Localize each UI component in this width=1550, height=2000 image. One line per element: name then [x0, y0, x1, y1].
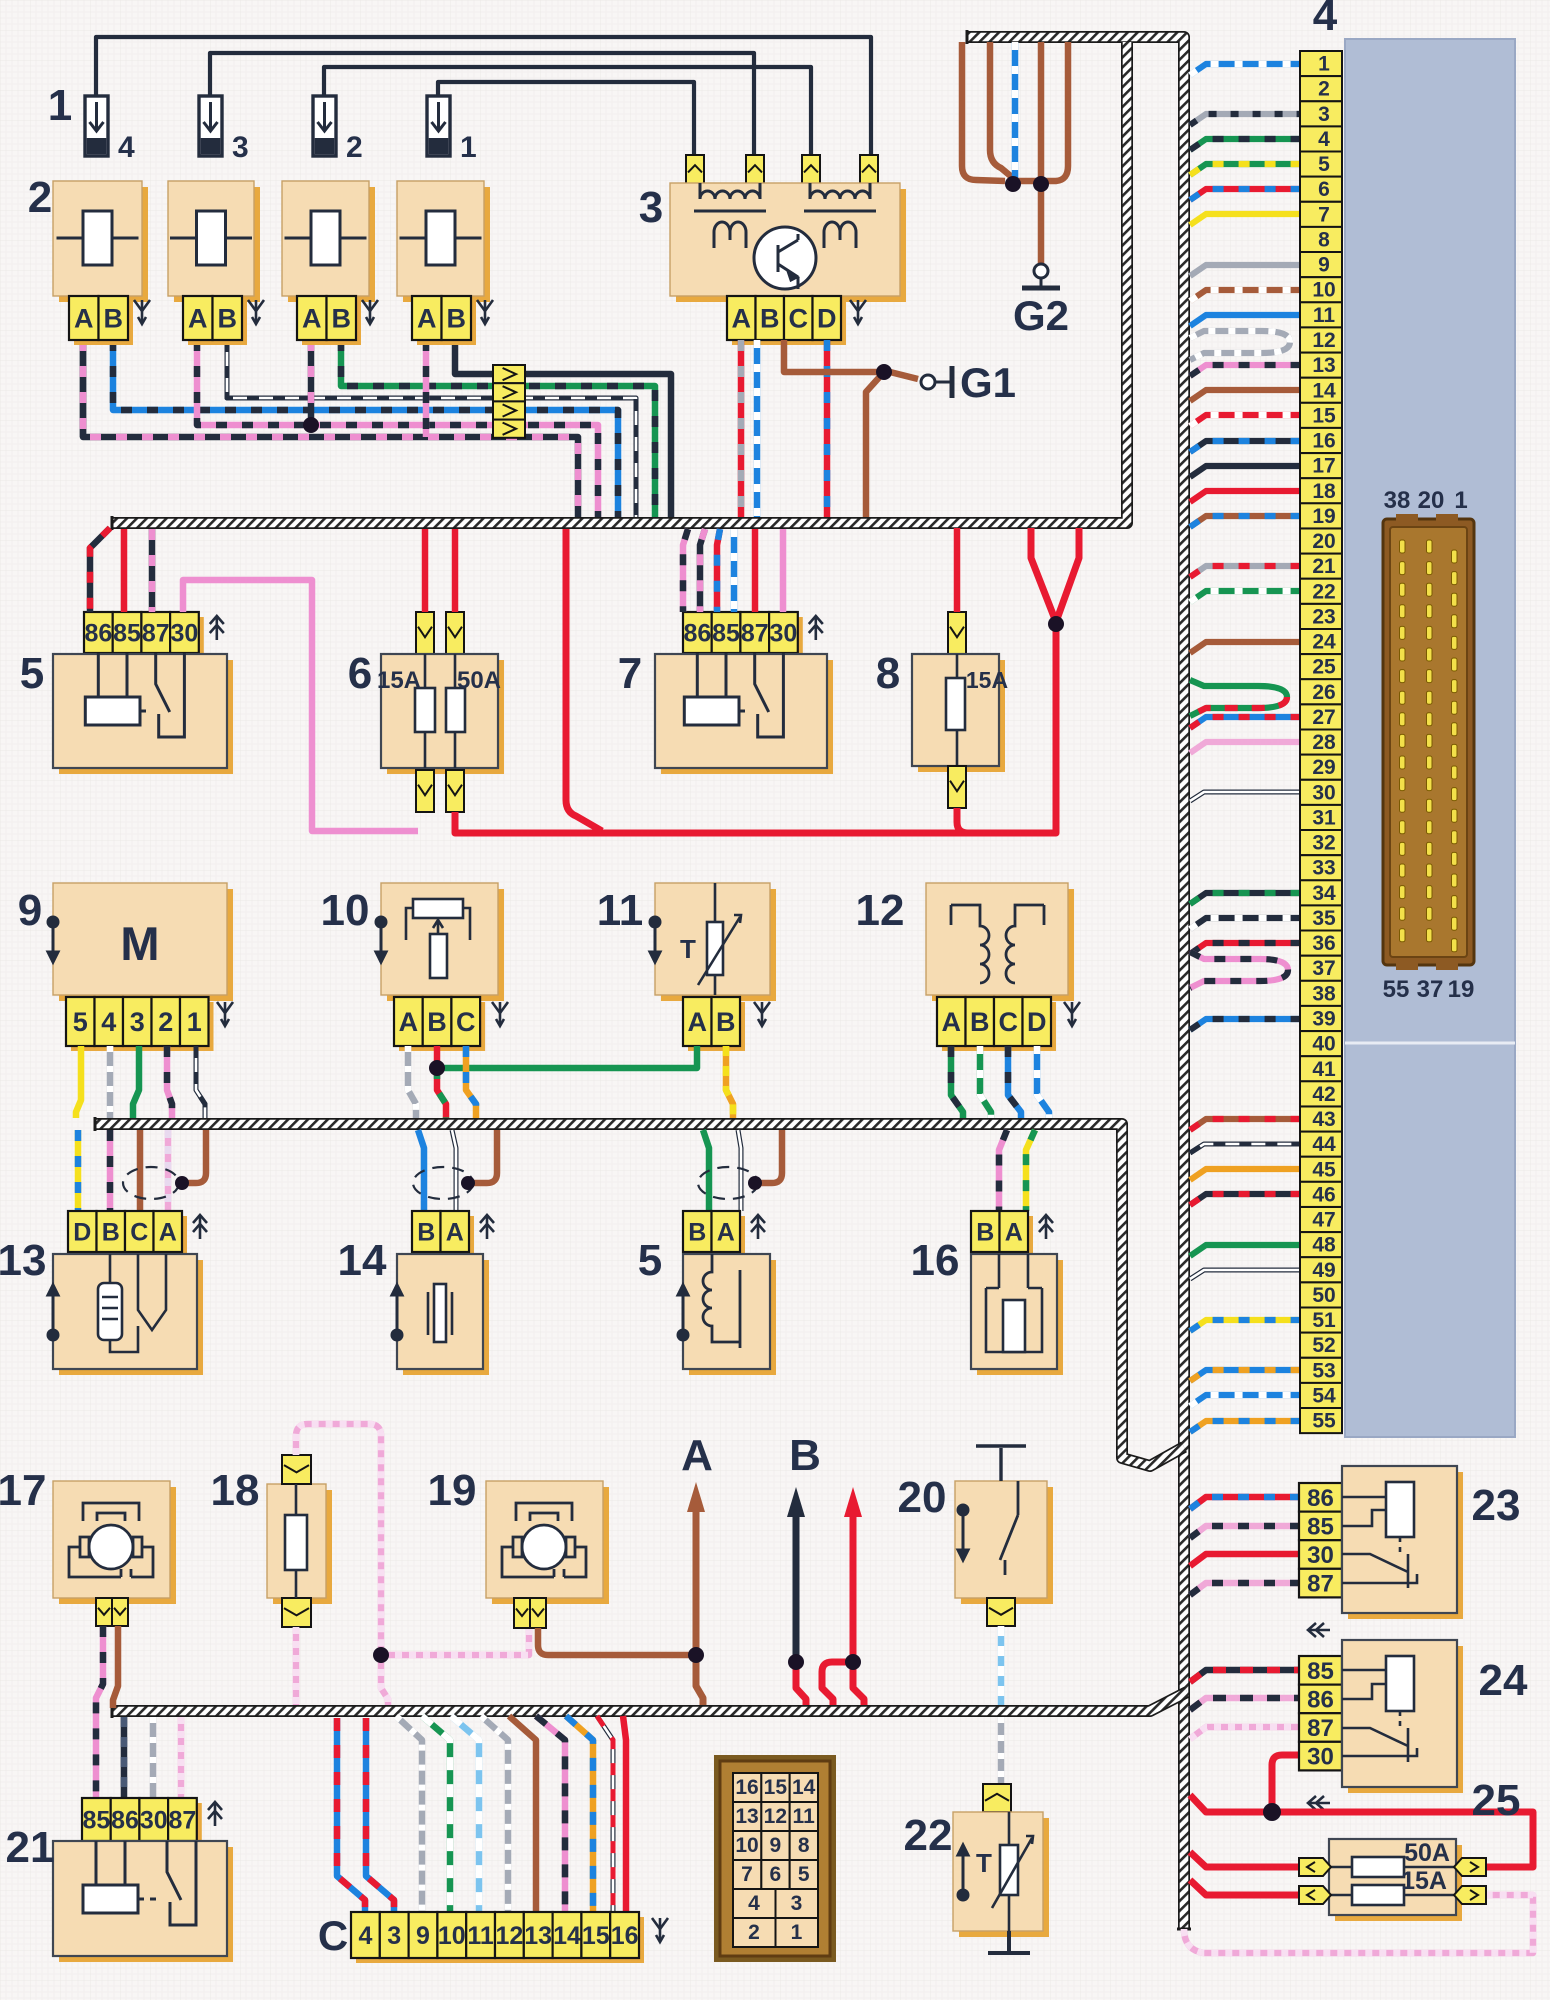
svg-text:A: A	[159, 1219, 177, 1247]
wire coil wire run y386	[341, 340, 655, 517]
wire ECU pin 54 wire	[1190, 1395, 1300, 1406]
svg-text:22: 22	[1312, 580, 1335, 603]
relay 21 connector	[82, 1798, 202, 1846]
wire ECU pin 51 wire	[1190, 1320, 1300, 1331]
item 14 arrows	[480, 1215, 494, 1239]
svg-text:21: 21	[1312, 555, 1336, 578]
svg-text:86: 86	[111, 1807, 139, 1835]
wire module 3 wire C brown to G1	[784, 340, 918, 379]
item 14 connector B A	[412, 1211, 474, 1257]
wire ECU pin 16 wire	[1190, 441, 1300, 452]
svg-text:A: A	[1005, 1219, 1023, 1247]
svg-text:12: 12	[856, 886, 905, 935]
svg-text:5: 5	[20, 649, 44, 698]
wire red branch loop	[822, 1662, 853, 1705]
svg-text:1: 1	[1318, 53, 1330, 76]
svg-text:85: 85	[712, 620, 740, 648]
wire relay 5 wire 85 (red)	[121, 529, 128, 612]
svg-text:A: A	[717, 1219, 735, 1247]
bus end caps	[95, 30, 1191, 1929]
item 16 connector B A	[971, 1211, 1033, 1257]
wire ignition feed wire injector 2	[324, 67, 811, 158]
svg-text:13: 13	[524, 1922, 552, 1950]
wire ECU pin 34 wire	[1190, 893, 1300, 904]
relay 21 internals	[83, 1841, 196, 1925]
svg-text:5: 5	[798, 1863, 810, 1886]
wire relay 21 wire 86 navy	[121, 1717, 128, 1798]
wire relay 5 wire 87 (navy/pink)	[149, 529, 156, 612]
wire ECU pin 5 wire	[1190, 164, 1300, 175]
svg-text:4: 4	[1318, 128, 1330, 151]
wire C-strip wire 15w	[597, 1716, 613, 1912]
svg-text:2: 2	[28, 173, 52, 222]
wire ECU pin 27 wire	[1190, 717, 1300, 728]
wire ECU pin 11 wire	[1190, 315, 1300, 326]
wire relay 7 wire c (red/blue)	[717, 529, 720, 612]
svg-text:48: 48	[1312, 1234, 1336, 1257]
svg-text:M: M	[120, 917, 159, 970]
air temp sensor (item 22)	[953, 1812, 1049, 1937]
svg-text:40: 40	[1312, 1033, 1335, 1056]
main relay (item 21)	[53, 1841, 233, 1962]
wire ECU pin 48 wire	[1190, 1245, 1300, 1256]
junction shield 13	[175, 1176, 189, 1190]
svg-text:22: 22	[904, 1811, 953, 1860]
svg-text:85: 85	[1307, 1658, 1334, 1685]
item 20 dot-arrow	[958, 1505, 968, 1560]
wire C-strip wire 11	[451, 1716, 479, 1912]
wire C-strip wire 9	[396, 1716, 422, 1912]
svg-text:D: D	[1027, 1007, 1047, 1037]
svg-text:31: 31	[1312, 807, 1336, 830]
svg-text:15: 15	[1312, 404, 1336, 427]
svg-text:50A: 50A	[1404, 1839, 1450, 1867]
ground symbol coil 4	[477, 300, 493, 324]
spark plug 1 (item 1)	[427, 96, 477, 164]
svg-text:37: 37	[1417, 976, 1444, 1003]
svg-text:86: 86	[1307, 1687, 1334, 1714]
wire ignition feed wire injector 4	[96, 37, 871, 158]
svg-text:11: 11	[467, 1922, 494, 1950]
wire G2 down brown	[1013, 181, 1041, 265]
relay 24 out arrow	[1308, 1796, 1330, 1810]
wire relay 24 wire 86	[1190, 1698, 1299, 1710]
wire main power red net	[455, 626, 1056, 833]
svg-text:B: B	[789, 1431, 821, 1480]
item 19 symbol	[502, 1503, 586, 1577]
item 19 connector	[514, 1598, 546, 1628]
idle actuator (item 19)	[486, 1481, 609, 1604]
wire pink link 19	[381, 1628, 529, 1655]
wire ECU pin 30 wire	[1190, 792, 1300, 801]
wire relay 7 wire d (blue/white)	[731, 529, 738, 612]
svg-text:A: A	[417, 304, 437, 334]
relay 23 pin 86	[1299, 1483, 1342, 1512]
wire red tail main	[853, 1662, 864, 1705]
wire item 12 pinA green/navy	[951, 1046, 963, 1118]
relay 7 internals	[684, 653, 783, 737]
wire ECU pin 12 hairpin gray	[1190, 331, 1290, 360]
fuse (item 8)	[912, 654, 1005, 772]
svg-text:23: 23	[1472, 1481, 1521, 1530]
wire ECU pin 26 wire green	[1190, 680, 1287, 716]
item 13 arrows	[193, 1215, 207, 1239]
wire harness bus 1 (engine top)	[113, 42, 1127, 523]
svg-text:17: 17	[0, 1466, 46, 1515]
engine harness connector C	[351, 1912, 644, 1963]
wire battery red feed	[1190, 1795, 1533, 1867]
svg-text:T: T	[976, 1848, 992, 1878]
svg-text:A: A	[732, 304, 752, 334]
svg-text:12: 12	[1312, 329, 1335, 352]
wire module 3 wire D (red/blue)	[824, 340, 831, 517]
wire pink net to bus3	[381, 1655, 388, 1705]
svg-text:54: 54	[1312, 1385, 1336, 1408]
wire ECU pin 7 wire	[1190, 214, 1300, 225]
item 20 T antenna	[976, 1446, 1026, 1481]
svg-text:29: 29	[1312, 756, 1335, 779]
wire coil 4 wire A drop	[423, 340, 430, 437]
svg-text:30: 30	[140, 1807, 168, 1835]
svg-text:16: 16	[611, 1922, 639, 1950]
wire arrow red	[850, 1515, 857, 1662]
item 18 connector top	[282, 1455, 311, 1484]
svg-text:C: C	[130, 1219, 148, 1247]
relay (item 7)	[655, 654, 833, 774]
svg-text:87: 87	[1307, 1571, 1334, 1598]
svg-text:C: C	[456, 1007, 476, 1037]
svg-text:4: 4	[748, 1892, 760, 1915]
wire ECU pin 15 wire	[1190, 415, 1300, 426]
svg-text:10: 10	[438, 1922, 466, 1950]
wire item 9 pin4 gray	[107, 1046, 114, 1118]
item 20 connector	[987, 1598, 1015, 1626]
wire ECU pin 4 wire	[1190, 139, 1300, 150]
svg-text:B: B	[102, 1219, 120, 1247]
svg-text:2: 2	[1318, 78, 1330, 101]
svg-text:11: 11	[597, 886, 644, 935]
wire B red tail	[796, 1662, 806, 1705]
wire item 12 pinD blue/white	[1037, 1046, 1049, 1118]
svg-text:T: T	[680, 934, 696, 964]
svg-text:15: 15	[582, 1922, 610, 1950]
svg-text:B: B	[716, 1007, 736, 1037]
wire ECU pin 45 wire	[1190, 1169, 1300, 1180]
svg-text:B: B	[447, 304, 467, 334]
throttle position sensor (item 10)	[381, 883, 504, 1001]
svg-text:8: 8	[1318, 229, 1330, 252]
spark plug 2 (item 1)	[313, 96, 363, 164]
relay 23 pin 30	[1299, 1540, 1342, 1569]
wire relay 24 wire 85	[1190, 1670, 1299, 1682]
relay 24 pin 30	[1299, 1742, 1342, 1771]
wire relay 21 wire 30 gray	[150, 1717, 157, 1798]
wire C-strip wire 3	[366, 1718, 394, 1912]
fuse block (item 6)	[381, 654, 504, 774]
coil 2 symbol	[170, 211, 252, 265]
svg-text:7: 7	[1318, 203, 1330, 226]
relay 23 out arrow	[1308, 1623, 1330, 1637]
svg-text:39: 39	[1312, 1008, 1335, 1031]
wire ECU pin 3 wire	[1190, 114, 1300, 125]
svg-text:42: 42	[1312, 1083, 1335, 1106]
wire harness bus top (to ECU)	[968, 37, 1184, 1929]
relay 23 pin 85	[1299, 1512, 1342, 1541]
wire ECU pin 14 wire	[1190, 390, 1300, 401]
junction A	[688, 1647, 704, 1663]
ECU harness connector (brown)	[1383, 514, 1474, 970]
junction G2 a	[1005, 176, 1021, 192]
fuse block (item 25)	[1329, 1839, 1462, 1921]
svg-text:87: 87	[169, 1807, 197, 1835]
wire ECU pin 46 wire	[1190, 1194, 1300, 1205]
svg-text:85: 85	[113, 620, 141, 648]
svg-text:15A: 15A	[1401, 1867, 1447, 1895]
ignition module (item 3)	[670, 183, 906, 302]
shield ellipse item 14	[413, 1167, 473, 1199]
svg-text:B: B	[218, 304, 238, 334]
svg-text:44: 44	[1312, 1133, 1336, 1156]
arrow red head	[844, 1487, 862, 1517]
spark plug 3 (item 1)	[199, 96, 249, 164]
wire relay 5 wire 86 (navy/red)	[90, 528, 110, 612]
coil 3 symbol	[285, 211, 367, 265]
fuse 25 lines and fuses	[1329, 1857, 1456, 1905]
item 12 coils symbol	[951, 905, 1044, 983]
svg-text:37: 37	[1312, 957, 1335, 980]
svg-text:1: 1	[48, 81, 72, 130]
wire ECU pin 22 wire	[1190, 591, 1300, 602]
junction B	[788, 1654, 804, 1670]
wire ECU pin 37 hairpin pink	[1190, 952, 1288, 988]
svg-text:G2: G2	[1013, 292, 1069, 339]
inline connector module 3 pin	[746, 155, 764, 184]
svg-text:50A: 50A	[457, 667, 501, 694]
arrow A head	[687, 1482, 705, 1512]
CO trim resistor (item 18)	[267, 1484, 332, 1604]
relay (item 5)	[53, 654, 233, 774]
item 5b coil symbol	[703, 1254, 740, 1348]
svg-text:12: 12	[495, 1922, 523, 1950]
wire ECU pin 36 wire	[1190, 943, 1300, 954]
wire ECU pin 17 wire	[1190, 466, 1300, 477]
svg-text:85: 85	[1307, 1514, 1334, 1541]
svg-text:16: 16	[1312, 430, 1335, 453]
svg-text:12: 12	[764, 1805, 787, 1828]
svg-text:A: A	[446, 1219, 464, 1247]
item 13 connector D B C A	[68, 1211, 187, 1257]
wire item 13 wire C brown	[137, 1130, 144, 1211]
wire G2 brown wire 1	[962, 42, 1005, 181]
wire red V branch a	[1031, 528, 1056, 622]
wire power red drop from bus	[566, 529, 602, 831]
ground symbol item 11	[754, 1002, 770, 1026]
wire item 9 pin1 thin white	[196, 1046, 205, 1118]
junction G1 brown	[876, 364, 892, 380]
wire relay 7 wire b (navy/pink)	[700, 529, 705, 612]
coil 3 connector A B	[297, 296, 361, 345]
wire relay 23 wire 87	[1190, 1583, 1299, 1595]
relay (item 24)	[1342, 1640, 1463, 1793]
wire fuse 25 15A left red	[1190, 1880, 1299, 1895]
wire ECU pin 1 wire	[1190, 64, 1300, 75]
wire relay 24 wire 30 red	[1272, 1755, 1299, 1812]
wire item 14 wire B blue	[418, 1130, 424, 1211]
ground symbol item 12	[1064, 1002, 1080, 1026]
item 11 dot-arrow	[650, 917, 660, 962]
ground terminal G1	[921, 366, 952, 398]
ignition coil 2 (item 2)	[168, 181, 260, 302]
svg-text:55: 55	[1383, 976, 1410, 1003]
wire ECU pin 21 wire	[1190, 566, 1300, 577]
svg-text:33: 33	[1312, 857, 1335, 880]
wire harness bus 2 (middle)	[96, 1124, 1184, 1466]
svg-text:86: 86	[683, 620, 711, 648]
svg-text:46: 46	[1312, 1183, 1335, 1206]
svg-text:49: 49	[1312, 1259, 1335, 1282]
ground symbol coil 1	[134, 300, 150, 324]
svg-text:18: 18	[1312, 480, 1336, 503]
svg-text:24: 24	[1479, 1656, 1528, 1705]
svg-text:B: B	[332, 304, 352, 334]
svg-text:19: 19	[1448, 976, 1475, 1003]
svg-text:30: 30	[1307, 1744, 1334, 1771]
wire ECU pin 43 wire	[1190, 1119, 1300, 1130]
wire item 10 pinB red/green to bus	[437, 1068, 446, 1118]
svg-text:13: 13	[735, 1805, 758, 1828]
wire ignition feed wire injector 3	[210, 53, 754, 158]
ECU controller panel (item 4)	[1345, 39, 1515, 1437]
svg-text:35: 35	[1312, 907, 1336, 930]
fuse 6 inline connector top-left	[416, 612, 434, 654]
wire arrow A brown	[696, 1510, 703, 1705]
throttle body motor (item 9)	[53, 883, 233, 1001]
svg-text:9: 9	[1318, 254, 1330, 277]
wire coil wire run y437	[83, 340, 578, 517]
crank sensor (item 12)	[926, 883, 1074, 1001]
svg-text:3: 3	[232, 131, 249, 164]
svg-text:A: A	[942, 1007, 962, 1037]
item 11 connector A B	[683, 997, 745, 1051]
wire item 9 pin2 pink/navy	[167, 1046, 172, 1118]
wire item 9 pin5 yellow	[76, 1046, 81, 1118]
item 20 switch symbol	[1000, 1481, 1018, 1575]
wire item 9 pin3 green	[133, 1046, 139, 1118]
wire ECU pin 55 wire	[1190, 1421, 1300, 1432]
wire item 5b shield drain brown	[755, 1130, 782, 1183]
item 10 dot-arrow	[376, 917, 386, 962]
wire harness bus 3 (bottom)	[113, 1692, 1187, 1711]
svg-text:4: 4	[1313, 0, 1338, 40]
junction green/red	[429, 1060, 445, 1076]
wire relay 23 wire 85	[1190, 1526, 1299, 1538]
svg-text:11: 11	[793, 1805, 816, 1828]
wire item 10 pinB red	[434, 1046, 441, 1068]
svg-text:25: 25	[1472, 1776, 1521, 1825]
svg-text:7: 7	[618, 649, 642, 698]
svg-text:52: 52	[1312, 1334, 1335, 1357]
svg-text:3: 3	[791, 1892, 803, 1915]
svg-text:18: 18	[211, 1466, 260, 1515]
svg-text:34: 34	[1312, 882, 1336, 905]
module 3 transformer + transistor symbols	[694, 183, 876, 289]
wire G1 branch brown to harness	[866, 372, 884, 517]
wire coil wire run y374	[455, 340, 671, 517]
wire relay 7 wire a (pink/navy)	[683, 529, 688, 612]
wire ECU pin 10 wire	[1190, 290, 1300, 301]
svg-text:9: 9	[18, 886, 42, 935]
item 17 symbol	[69, 1503, 153, 1577]
ECU connector strip (55 pins)	[1300, 51, 1342, 1433]
fuse 6 inline connector top-right	[446, 612, 464, 654]
svg-text:14: 14	[338, 1236, 387, 1285]
shield ellipse item 5b	[698, 1167, 758, 1199]
wire G2 brown wire 3	[1038, 42, 1045, 181]
svg-text:G1: G1	[960, 359, 1016, 406]
item 9 dot-arrow	[48, 917, 58, 962]
svg-text:2: 2	[158, 1007, 173, 1037]
svg-text:8: 8	[798, 1834, 810, 1857]
inline connector stack (coil harness)	[493, 365, 525, 438]
wire ECU pin 49 wire	[1190, 1270, 1300, 1279]
svg-text:15: 15	[764, 1776, 788, 1799]
wire coil wire run y398	[227, 340, 636, 517]
wire C-strip wire 14	[536, 1716, 565, 1912]
wire item 13 shield drain brown	[182, 1130, 206, 1183]
svg-text:25: 25	[1312, 656, 1336, 679]
svg-text:2: 2	[346, 131, 363, 164]
wire item 18 pink top	[296, 1424, 381, 1650]
svg-text:6: 6	[769, 1863, 781, 1886]
wire ECU pin 44 wire	[1190, 1144, 1300, 1153]
junction shield 14	[461, 1176, 475, 1190]
oxygen sensor (item 13)	[53, 1254, 203, 1375]
svg-text:32: 32	[1312, 832, 1335, 855]
relay 5 out-arrow symbol	[210, 616, 224, 640]
wire fuse 6 supply red left	[422, 529, 429, 612]
item 12 connector A B C D	[937, 997, 1056, 1051]
wire relay 7 wire 30 pink	[780, 529, 787, 612]
wire ignition feed wire injector 1	[438, 82, 694, 158]
svg-text:51: 51	[1312, 1309, 1336, 1332]
wire relay 21 wire 87 pink	[178, 1717, 185, 1798]
vehicle speed sensor (item 16)	[971, 1254, 1063, 1375]
arrow B head	[787, 1487, 805, 1517]
relay 24 pin 86	[1299, 1685, 1342, 1714]
wire item 13 wire B pink/navy	[107, 1130, 114, 1211]
wire item 16 wire B pink/navy	[999, 1130, 1007, 1211]
svg-text:16: 16	[735, 1776, 758, 1799]
wire relay 7 wire 87 red	[752, 529, 759, 612]
svg-text:4: 4	[101, 1007, 116, 1037]
item 14 internals	[428, 1284, 452, 1342]
svg-text:87: 87	[741, 620, 769, 648]
svg-text:20: 20	[898, 1473, 947, 1522]
ground terminal G2	[1022, 264, 1060, 288]
svg-text:A: A	[681, 1431, 713, 1480]
wire relay 23 wire 86	[1190, 1497, 1299, 1509]
sensor (item 5 lower)	[683, 1254, 776, 1375]
svg-text:1: 1	[791, 1921, 803, 1944]
svg-text:86: 86	[1307, 1485, 1334, 1512]
svg-text:50: 50	[1312, 1284, 1335, 1307]
wire item 13 wire D yellow/blue	[75, 1130, 82, 1211]
wire ECU pin 19 wire	[1190, 516, 1300, 527]
wire ECU pin 18 wire	[1190, 491, 1300, 502]
wire coil wire run y410	[113, 340, 618, 517]
wire item 13 wire A pink	[165, 1130, 172, 1211]
wire C-strip wire 10	[422, 1716, 450, 1912]
